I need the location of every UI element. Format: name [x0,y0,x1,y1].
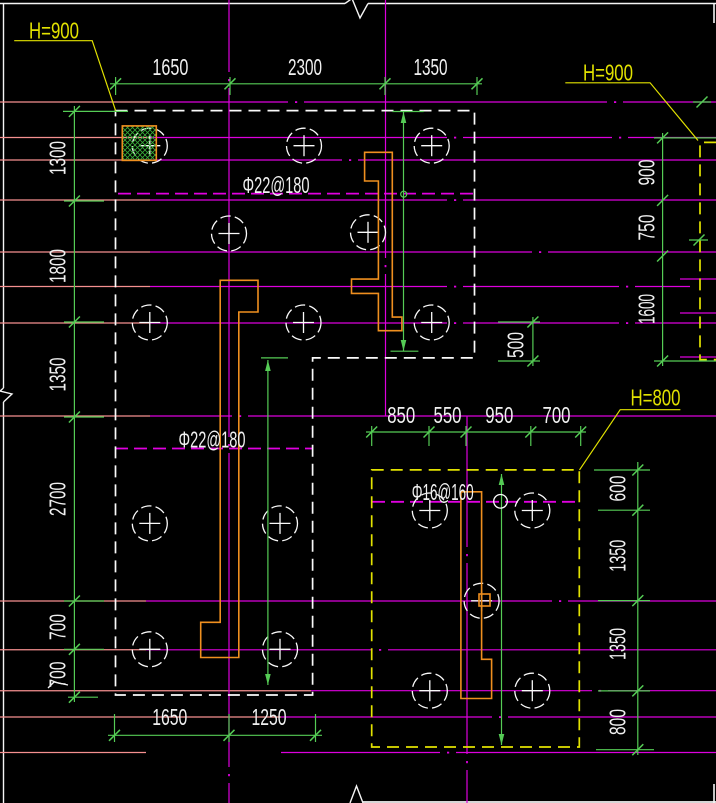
pile P6 [132,305,167,340]
svg-text:H=900: H=900 [583,60,633,86]
wire left frame line [3,3,5,388]
svg-text:900: 900 [634,160,660,186]
pile P11 [132,632,167,667]
dimension left chain line [63,106,128,703]
dimension yellow cap right chain [594,462,654,755]
svg-text:1650: 1650 [152,54,188,80]
pile P9 [132,506,167,541]
node leader H=900 top-left [14,41,115,111]
dimension 500 [498,317,540,367]
svg-text:Φ22@180: Φ22@180 [179,427,246,453]
svg-text:Φ16@160: Φ16@160 [412,479,474,505]
svg-text:1300: 1300 [45,141,71,175]
svg-text:2700: 2700 [45,482,71,516]
wire magenta grid verticals [229,0,467,803]
wire magenta grid horizontals [146,102,716,753]
node bottom-right pile cap outline yellow dashed [372,470,580,747]
svg-text:700: 700 [45,662,71,688]
wire rebar zone dashed line bottom-right cap [372,501,579,503]
svg-text:1350: 1350 [605,628,631,660]
pile P16 [412,673,447,708]
node frame corner mark top-right [713,4,715,23]
dimension 850-550-950-700 chain [366,426,586,446]
svg-text:2300: 2300 [288,54,322,80]
svg-text:750: 750 [634,215,660,241]
wire rebar zone dashed line bottom-left cap [115,448,313,450]
node rebar extent arrow top cap [391,112,424,352]
node leader H=800 [580,410,681,470]
node break symbol bottom [350,786,363,803]
pile P7 [286,305,321,340]
wire rebar zone dashed line top cap [118,193,474,195]
svg-text:500: 500 [503,332,529,358]
wire bottom frame line [363,801,716,803]
pile P12 [263,632,298,667]
svg-text:H=900: H=900 [29,18,79,44]
node frame corner mark bottom-right [713,784,715,803]
svg-text:1250: 1250 [252,704,287,730]
node rebar extent arrow bottom-left cap [261,358,288,685]
svg-text:1350: 1350 [414,54,448,80]
node rebar extent arrow yellow cap [499,474,505,745]
svg-text:700: 700 [543,402,571,428]
node break symbol mid-left [48,682,68,688]
node L-shaped pile cap outline white dashed [116,111,475,695]
svg-text:1800: 1800 [45,249,71,283]
node column hatch square [122,126,156,160]
pile P17 [515,673,550,708]
svg-text:1650: 1650 [152,704,187,730]
svg-text:700: 700 [45,614,71,640]
dimension 1650-1250 bottom chain [108,714,322,742]
svg-text:1350: 1350 [605,540,631,572]
svg-text:800: 800 [605,709,631,735]
pile P4 [212,216,247,251]
wire centerline gaps vertical [227,72,468,783]
pile P15 [464,583,499,618]
node small circle on dashed line yellow cap [494,495,508,509]
node small circle on dashed line top cap [401,191,407,197]
pile P2 [287,128,322,163]
svg-text:Φ22@180: Φ22@180 [243,172,310,198]
svg-text:550: 550 [434,402,462,428]
wire salmon beam lines left [0,102,311,753]
pile P10 [263,506,298,541]
node right pile cap outline yellow dashed partial [700,142,716,359]
wire top frame line right segment [368,3,716,5]
svg-text:H=800: H=800 [631,385,681,411]
svg-text:1350: 1350 [45,358,71,392]
node column square on W3 [479,594,490,606]
pile P3 [414,128,449,163]
node wall outline W1 [352,152,402,330]
pile P5 [351,215,386,250]
node wall outline W2 [201,280,258,657]
pile P8 [414,305,449,340]
wire centerline gaps [232,100,635,754]
wire top frame line left segment [0,3,345,5]
node leader H=900 top-right [565,83,698,141]
node wall outline W3 [461,492,492,699]
pile P1 [132,128,167,163]
svg-text:850: 850 [387,402,415,428]
node break symbol top [345,0,368,18]
pile P14 [515,493,550,528]
node break symbol left [0,388,12,402]
dimension right chain line [654,97,716,367]
svg-text:950: 950 [485,402,513,428]
svg-text:1600: 1600 [634,294,660,324]
pile P13 [412,493,447,528]
svg-text:600: 600 [605,476,631,502]
dimension top chain line [110,77,483,95]
